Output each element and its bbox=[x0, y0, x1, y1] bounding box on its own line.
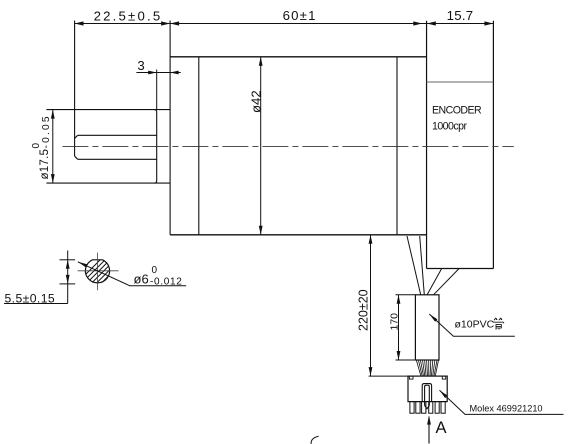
wires from motor to cable tube bbox=[407, 236, 459, 295]
svg-text:220±20: 220±20 bbox=[357, 289, 371, 331]
svg-text:ENCODER: ENCODER bbox=[432, 105, 482, 117]
O6 leader and label bbox=[78, 262, 186, 286]
svg-text:-0.05: -0.05 bbox=[41, 114, 52, 148]
svg-text:5.5±0.15: 5.5±0.15 bbox=[5, 291, 56, 305]
cable tube (PVC) bbox=[415, 295, 439, 360]
svg-text:170: 170 bbox=[388, 313, 400, 331]
svg-text:0: 0 bbox=[152, 265, 158, 276]
front endbell internal line bbox=[198, 57, 200, 235]
O42 dimension line bbox=[260, 57, 262, 235]
encoder block right edge bbox=[492, 21, 494, 269]
body left face + extension line to top dimension bbox=[169, 21, 171, 235]
ENCODER 1000cpr label bbox=[432, 105, 482, 133]
3mm dimension bbox=[136, 70, 180, 110]
svg-text:ø10PVC: ø10PVC bbox=[455, 319, 495, 331]
svg-text:ø6: ø6 bbox=[134, 272, 149, 287]
svg-text:3: 3 bbox=[137, 58, 144, 73]
connector latch bbox=[422, 384, 431, 409]
small break mark bbox=[311, 436, 319, 444]
section centerlines bbox=[78, 253, 119, 291]
section arrow A bbox=[428, 417, 430, 444]
O10 PVC leader and label bbox=[429, 314, 515, 336]
motor body outline bbox=[170, 57, 426, 235]
170 dimension bbox=[396, 295, 416, 360]
svg-text:60±1: 60±1 bbox=[283, 8, 317, 23]
connector body (Molex) bbox=[408, 376, 447, 402]
svg-text:A: A bbox=[436, 419, 447, 437]
O17.5 dimension line bbox=[52, 110, 54, 184]
top dimension line (22.5 / 60 / 15.7) bbox=[75, 23, 494, 25]
Molex leader and label bbox=[440, 390, 564, 414]
pilot boss (3mm) bbox=[46, 110, 170, 184]
shaft (O6) bbox=[75, 135, 157, 159]
hand-drawn CJK glyph (tube) bbox=[493, 318, 503, 330]
svg-text:22.5±0.5: 22.5±0.5 bbox=[94, 8, 163, 23]
encoder block bottom edge bbox=[427, 268, 494, 270]
connector corner notches bbox=[409, 376, 445, 379]
encoder block left edge bbox=[426, 21, 428, 269]
5.5±0.15 dimension bbox=[4, 251, 75, 304]
220±20 dimension bbox=[369, 235, 408, 376]
main centerline bbox=[62, 146, 513, 148]
top dimension arrowheads bbox=[75, 21, 494, 25]
svg-text:15.7: 15.7 bbox=[447, 8, 474, 23]
shaft left face + 22.5 extension line bbox=[74, 21, 76, 157]
svg-text:Molex 469921210: Molex 469921210 bbox=[470, 403, 543, 413]
rear endbell internal line bbox=[396, 57, 398, 235]
connector pins bbox=[410, 402, 445, 414]
svg-text:-0.012: -0.012 bbox=[150, 277, 183, 288]
svg-text:ø42: ø42 bbox=[249, 90, 264, 113]
wire fan from tube to connector bbox=[416, 360, 438, 376]
svg-text:1000cpr: 1000cpr bbox=[432, 121, 467, 133]
svg-text:ø17.5: ø17.5 bbox=[38, 149, 51, 180]
encoder internal divider bbox=[427, 81, 494, 83]
